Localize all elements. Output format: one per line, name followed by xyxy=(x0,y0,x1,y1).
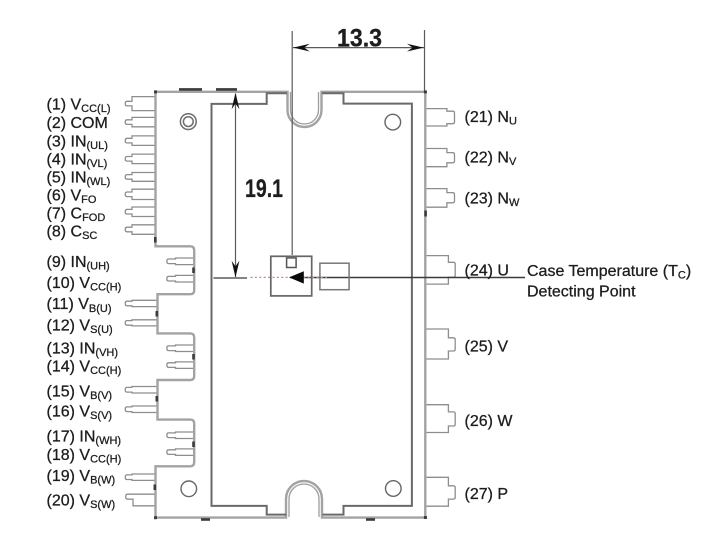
pin 4 lead xyxy=(125,154,155,164)
svg-text:(26) W: (26) W xyxy=(465,413,514,430)
Tc level tick line xyxy=(214,277,248,279)
arrowhead left 13.3 xyxy=(293,44,310,52)
arrowhead bottom 19.1 xyxy=(232,261,240,278)
svg-text:13.3: 13.3 xyxy=(337,24,382,52)
pin 13 lead xyxy=(167,345,194,352)
arrowhead right 13.3 xyxy=(407,44,424,52)
Tc leader line xyxy=(290,277,525,279)
svg-text:(27) P: (27) P xyxy=(465,486,509,503)
edge gate mark (pins 11-12) xyxy=(156,311,159,317)
pin 16 lead xyxy=(125,406,157,413)
pin 24 lead xyxy=(426,256,455,285)
pin 6 lead xyxy=(125,189,155,199)
left edge gate mark (below pin 8) xyxy=(154,237,157,243)
red dotted center line xyxy=(251,276,328,278)
pin 17 lead xyxy=(167,432,194,439)
left edge gate mark (pins 19-20) xyxy=(154,485,157,491)
top notch inner curve xyxy=(291,92,319,124)
pin 18 lead xyxy=(167,449,194,456)
pin 19 lead xyxy=(125,474,155,480)
pin 8 lead xyxy=(125,225,155,235)
corner accents xyxy=(154,90,427,519)
pin 3 lead xyxy=(125,136,155,146)
hole bottom-right xyxy=(386,481,402,497)
pin 27 lead xyxy=(426,477,455,506)
right edge gate mark xyxy=(424,211,427,217)
recess edge gate mark (pins 9-10) xyxy=(192,268,195,274)
hole bottom-left xyxy=(181,481,197,497)
svg-text:Case Temperature (TC): Case Temperature (TC) xyxy=(527,263,691,282)
svg-text:(24) U: (24) U xyxy=(465,262,509,279)
package outer case outline xyxy=(156,92,426,518)
small square inside xyxy=(287,258,297,268)
pin 9 lead xyxy=(167,258,194,265)
pin 21 lead xyxy=(426,109,455,126)
top edge gate mark 1 xyxy=(179,88,202,91)
package lid (inner) outline xyxy=(212,93,412,514)
svg-text:(2) COM: (2) COM xyxy=(47,115,108,132)
dimension line 13.3 xyxy=(293,47,424,49)
pin 25 lead xyxy=(426,329,455,359)
bottom edge gate mark 2 xyxy=(366,518,375,521)
svg-text:Detecting Point: Detecting Point xyxy=(527,283,636,300)
companion square right xyxy=(320,263,349,290)
pin 23 lead xyxy=(426,189,455,208)
mounting hole top-left (double ring) xyxy=(180,114,196,130)
bottom notch inner curve xyxy=(289,484,319,517)
recess edge gate mark (pins 17-18) xyxy=(192,442,195,448)
hole top-right xyxy=(385,114,401,130)
Tc arrowhead xyxy=(289,271,304,283)
pin 14 lead xyxy=(167,362,194,369)
edge gate mark (pins 15-16) xyxy=(156,396,159,402)
recess edge gate mark (pins 13-14) xyxy=(192,354,195,360)
dimension extension line (notch center) xyxy=(291,31,293,255)
pin 1 lead xyxy=(125,97,155,111)
pin 7 lead xyxy=(125,207,155,217)
bottom edge gate mark 1 xyxy=(201,518,210,521)
top edge gate mark 2 xyxy=(216,88,237,91)
pin 26 lead xyxy=(426,405,455,433)
pin 2 lead xyxy=(125,117,155,126)
pin 20 lead xyxy=(126,494,156,506)
dimension extension line (right edge) xyxy=(424,30,426,91)
pin 12 lead xyxy=(125,320,157,326)
pin 11 lead xyxy=(125,300,157,306)
pin 5 lead xyxy=(125,173,155,182)
svg-text:(25) V: (25) V xyxy=(465,339,509,356)
pin 10 lead xyxy=(167,275,194,282)
thermistor big square xyxy=(271,256,312,296)
dimension line 19.1 xyxy=(235,94,237,277)
pin 22 lead xyxy=(426,149,455,167)
arrowhead top 19.1 xyxy=(232,93,240,110)
svg-text:19.1: 19.1 xyxy=(245,175,283,203)
pin 15 lead xyxy=(125,387,157,394)
